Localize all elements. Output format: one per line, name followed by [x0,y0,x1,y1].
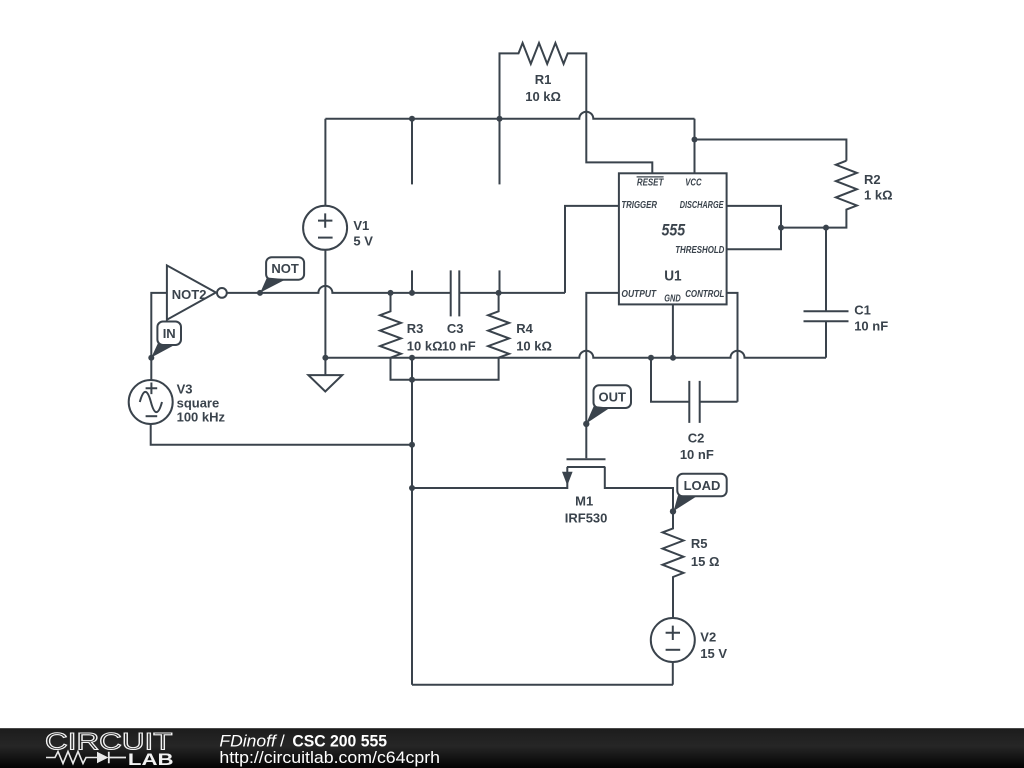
svg-text:100 kHz: 100 kHz [177,409,226,424]
svg-text:DISCHARGE: DISCHARGE [680,200,724,211]
wire CONTROL lead right then down to C2 [727,293,738,402]
svg-text:10 kΩ: 10 kΩ [516,338,552,353]
flag IN tail [151,344,174,358]
flag OUT tail [586,406,610,424]
IC U1 box [619,173,727,304]
wire top rail from V1 branch to VCC corner with hop over R1 right lead [325,112,694,119]
wire C2 left branch from ground rail [651,358,689,402]
svg-text:10 nF: 10 nF [680,447,714,462]
flag LOAD tail [674,495,696,511]
svg-text:R2: R2 [864,172,881,187]
svg-text:C2: C2 [688,430,705,445]
svg-text:555: 555 [661,222,685,240]
node jog x412 [409,377,415,383]
svg-text:10 nF: 10 nF [442,338,476,353]
voltage source V1 circle [303,206,347,250]
resistor R4 with top stub [488,293,509,358]
node C2 left branch [648,355,654,361]
svg-text:C1: C1 [854,303,871,318]
svg-text:R4: R4 [516,321,533,336]
wire from loop to C1 R2 junction [781,227,826,229]
svg-text:V1: V1 [353,218,369,233]
transistor M1 drain drop and rail to R5 corner [605,467,673,511]
svg-text:LAB: LAB [128,750,174,768]
wire R2 top feed from VCC lead [695,140,847,161]
node R3 top [388,290,394,296]
svg-text:IRF530: IRF530 [565,511,608,526]
svg-text:LOAD: LOAD [684,478,721,493]
svg-text:OUT: OUT [598,389,626,404]
svg-text:TRIGGER: TRIGGER [621,200,657,211]
node OUT flag attach [583,421,589,427]
svg-text:15 V: 15 V [700,646,727,661]
transistor M1 source arrow [562,472,573,486]
node top rail x412 [409,116,415,122]
wire VCC lead from top rail [694,119,696,174]
svg-text:V2: V2 [700,630,716,645]
wire stub upper x412 [411,119,413,185]
wire middle rail from NOT bubble to TRIGGER riser, hop over V1 lead, gap at C3 [227,286,565,293]
capacitor C1 plates [804,311,849,321]
wire C1 top lead [825,228,827,312]
flag IN body [157,322,181,346]
V3 sine wave [140,392,162,412]
svg-text:U1: U1 [664,267,681,284]
node V3 return [409,442,415,448]
svg-text:GND: GND [664,293,680,304]
flag OUT body [594,385,632,408]
svg-text:NOT2: NOT2 [172,287,207,302]
wire DISCHARGE THRESHOLD loop [727,206,781,249]
wire V1 top lead from top rail down to V1 circle [324,119,326,206]
flag NOT body [266,257,304,280]
transistor M1 source drop with rail to left vertical [412,467,567,488]
resistor R2 [826,161,857,228]
wire V2 bottom lead to bottom rail [672,662,674,685]
svg-text:10 kΩ: 10 kΩ [525,89,561,104]
svg-text:5 V: 5 V [353,234,373,249]
resistor R5 with leads [663,511,684,618]
svg-text:RESET: RESET [637,178,664,189]
svg-text:R1: R1 [535,72,552,87]
svg-text:OUTPUT: OUTPUT [621,289,656,300]
svg-text:R5: R5 [691,536,708,551]
node top rail x499 [497,116,503,122]
V2 minus sign [666,649,681,651]
wire OUTPUT lead going left then down to MOSFET gate [586,293,619,458]
logo resistor diode icon [46,752,97,764]
node R2 C1 junction [823,225,829,231]
V3 small plus [146,383,158,395]
NOT gate bubble [217,288,227,298]
flag NOT tail [260,278,286,293]
node IN flag attach [148,355,154,361]
wire left vertical x412 down to bottom rail [411,358,413,685]
capacitor C2 plates [689,381,699,423]
svg-text:R3: R3 [407,321,424,336]
footer bar [0,728,1024,768]
wire GND pin lead down to ground rail [672,304,674,357]
node NOT flag attach [257,290,263,296]
wire TRIGGER riser and pin [565,206,619,293]
wire C2 right lead [700,401,738,403]
V3 small minus [146,415,158,417]
ground symbol [324,358,326,375]
transistor M1 channel bar [567,466,605,468]
wire V1 bottom lead down to ground rail [324,250,326,358]
V1 minus sign [318,237,333,239]
svg-text:square: square [177,396,220,411]
wire bottom rail to V2 [412,684,673,686]
svg-text:10 kΩ: 10 kΩ [407,338,443,353]
svg-text:M1: M1 [575,493,593,508]
transistor M1 gate bar [567,458,606,460]
svg-text:IN: IN [163,326,176,341]
wire stub lower x412 [411,270,413,293]
wire ground rail with hops over OUTPUT and CONTROL verticals [325,351,826,358]
svg-text:15 Ω: 15 Ω [691,554,720,569]
wire C1 bottom lead to ground rail [825,321,827,358]
svg-text:1 kΩ: 1 kΩ [864,188,893,203]
NOT gate NOT2 triangle [167,265,216,319]
resistor R1 with leads [500,43,653,173]
wire stub upper x499 [499,119,501,185]
svg-text:http://circuitlab.com/c64cprh: http://circuitlab.com/c64cprh [219,748,440,767]
node VCC R2 junction [692,137,698,143]
svg-text:CONTROL: CONTROL [685,289,724,300]
wire V3 bottom lead to left vertical [151,424,412,445]
node source rail x412 [409,485,415,491]
wire U-jog below R3 R4 [391,358,499,380]
capacitor C3 plates [451,270,460,316]
node LOAD flag attach [670,508,676,514]
node R4 top [496,290,502,296]
node discharge threshold tap [778,225,784,231]
voltage source V3 circle [129,380,173,424]
node U1 GND to rail [670,355,676,361]
node middle rail x412 [409,290,415,296]
V2 plus sign [666,626,680,640]
voltage source V2 circle [651,618,695,662]
node ground rail x412 [409,355,415,361]
wire stub lower x499 [499,270,501,293]
svg-text:10 nF: 10 nF [854,318,888,333]
svg-text:THRESHOLD: THRESHOLD [675,245,724,256]
svg-text:V3: V3 [177,381,193,396]
node ground junction [322,355,328,361]
resistor R3 with top stub [380,293,401,358]
V1 plus sign [318,213,332,227]
wire NOT input lead down to V3 [151,293,167,380]
flag LOAD body [677,474,726,497]
svg-text:NOT: NOT [271,261,299,276]
svg-text:VCC: VCC [685,178,702,189]
svg-text:C3: C3 [447,321,464,336]
